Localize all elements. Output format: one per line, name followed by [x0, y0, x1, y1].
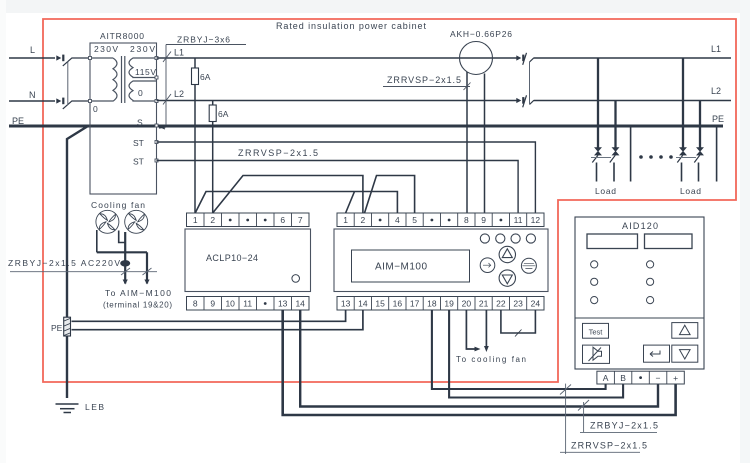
CT AKH-0.66P26 circle: [460, 42, 493, 75]
controller U2 aux button: [521, 258, 536, 273]
svg-text:AITR8000: AITR8000: [100, 31, 144, 41]
breaker QF2 pole L1: [516, 53, 534, 65]
button Enter: [644, 345, 670, 362]
wire jumper AIM 22-24: [501, 310, 536, 333]
button Down: [672, 345, 698, 362]
load group 1 linkage: [591, 157, 611, 159]
svg-text:23: 23: [513, 299, 523, 309]
svg-text:S: S: [137, 118, 143, 128]
svg-text:6A: 6A: [200, 72, 211, 82]
relay U1 ACLP10-24 main box: [185, 229, 311, 292]
svg-text:9: 9: [210, 299, 215, 309]
svg-text:B: B: [620, 373, 626, 383]
svg-text:0: 0: [138, 88, 143, 98]
svg-text:ZRBYJ−2x1.5: ZRBYJ−2x1.5: [590, 421, 658, 431]
svg-text:17: 17: [410, 299, 420, 309]
transformer T1 secondary coil lower (115V-0): [129, 81, 157, 101]
svg-text:+: +: [673, 373, 678, 383]
wire PE bus (thick horizontal): [9, 125, 723, 128]
wire tap into AIM-1: [346, 192, 355, 214]
svg-text:1: 1: [343, 215, 348, 225]
ellipsis dots between load groups: [639, 155, 673, 159]
ground LEB symbol: [56, 404, 79, 413]
svg-text:24: 24: [531, 299, 541, 309]
fuse FU2 body: [209, 105, 216, 122]
svg-text:9: 9: [481, 215, 486, 225]
fuse FU2 6A wire: [212, 101, 214, 214]
breaker QF1 pole N: [56, 98, 90, 109]
svg-text:14: 14: [358, 299, 368, 309]
wire L2 output: [157, 100, 519, 102]
svg-text:ZRRVSP−2x1.5: ZRRVSP−2x1.5: [238, 148, 318, 158]
svg-text:11: 11: [514, 215, 523, 225]
svg-text:Load: Load: [595, 186, 616, 196]
svg-text:LEB: LEB: [85, 402, 104, 412]
cable leader bottom (signal): [565, 384, 567, 454]
svg-text:AKH−0.66P26: AKH−0.66P26: [450, 29, 512, 39]
fan M1: [96, 210, 119, 233]
wire ACLP-14 to bus minus: [300, 310, 658, 407]
load group 1 PE drop: [630, 126, 632, 182]
load group 1 drop from L1 with contact: [592, 58, 601, 182]
svg-text:22: 22: [496, 299, 506, 309]
svg-text:8: 8: [464, 215, 469, 225]
svg-text:16: 16: [393, 299, 403, 309]
display panel terminal strip A B . - +: [597, 371, 684, 384]
svg-text:ST: ST: [133, 157, 144, 167]
svg-text:ZRBYJ−3x6: ZRBYJ−3x6: [177, 35, 230, 45]
left edge tint: [0, 0, 6, 463]
wire L1 output (transformer to right edge): [157, 57, 519, 59]
relay U1 top terminal strip 1 2 . . . 6 7: [187, 213, 310, 227]
svg-text:A: A: [603, 373, 609, 383]
svg-text:20: 20: [462, 299, 472, 309]
svg-text:18: 18: [427, 299, 437, 309]
svg-text:L1: L1: [711, 44, 721, 54]
svg-text:6A: 6A: [218, 109, 229, 119]
svg-text:12: 12: [531, 215, 541, 225]
svg-text:AIM−M100: AIM−M100: [375, 262, 427, 273]
breaker QF1 linkage: [67, 62, 69, 106]
relay U1 bottom terminal strip 8 9 10 11 . 13 14: [187, 297, 310, 311]
svg-text:4: 4: [395, 215, 400, 225]
right edge tint: [740, 0, 750, 463]
load group 2 linkage: [676, 157, 696, 159]
svg-text:230V: 230V: [94, 44, 118, 54]
transformer T1 core: [121, 56, 123, 103]
load group 1 drop from L2 with contact: [610, 101, 619, 182]
wire AIM-19 to bus B: [449, 310, 623, 398]
svg-text:Rated insulation power cabinet: Rated insulation power cabinet: [276, 21, 426, 31]
breaker QF1 pole L: [56, 55, 90, 66]
wire AIM-2 to AIM-5 rail: [365, 176, 415, 214]
display panel divider: [575, 317, 704, 319]
svg-text:N: N: [29, 90, 36, 100]
svg-text:19: 19: [444, 299, 454, 309]
relay U1 indicator circle: [292, 275, 300, 283]
wire ST2 to AIM terminal 11: [157, 161, 519, 214]
button Test: [583, 323, 609, 338]
load group 2 drop from L1 with contact: [677, 58, 686, 182]
fan feed arrows to AIM: [123, 280, 128, 285]
svg-text:0: 0: [93, 104, 98, 114]
breaker QF2 pole L2: [516, 95, 534, 107]
svg-text:ACLP10−24: ACLP10−24: [206, 253, 258, 263]
svg-text:Load: Load: [680, 186, 701, 196]
wire ACLP-2 to AIM-2 rail: [213, 176, 363, 214]
svg-text:L2: L2: [711, 86, 721, 96]
svg-text:PE: PE: [12, 116, 24, 126]
svg-text:115V: 115V: [135, 67, 156, 77]
fan AC node (filled): [120, 260, 130, 266]
display panel AID120 box: [575, 217, 704, 369]
transformer T1 secondary coil upper (230V-115V): [129, 58, 157, 78]
cabinet outline (red, L-shaped): [43, 19, 736, 382]
CT secondary wire to AIM terminal 9: [484, 74, 486, 214]
svg-text:13: 13: [341, 299, 351, 309]
display panel LEDs: [591, 261, 654, 304]
button Up: [672, 323, 698, 339]
controller U2 AIM-M100 main box: [334, 229, 548, 292]
svg-text:ZRRVSP−2x1.5: ZRRVSP−2x1.5: [571, 441, 647, 451]
svg-text:PE: PE: [712, 114, 724, 124]
wire PE drop diagonal from PE bus: [67, 126, 88, 398]
svg-text:5: 5: [412, 215, 417, 225]
controller U2 set button: [480, 258, 495, 273]
svg-text:230V: 230V: [130, 44, 155, 54]
fuse FU1 6A wire: [194, 58, 196, 213]
transformer T1 terminal squares: [89, 57, 159, 163]
fan M2: [125, 210, 148, 233]
wire ACLP-13 to bus plus: [283, 310, 676, 415]
svg-text:21: 21: [479, 299, 489, 309]
wire AIM-13 to PE block: [72, 310, 346, 321]
load group 2 drop from L2 with contact: [694, 101, 703, 182]
svg-text:PE: PE: [51, 323, 63, 333]
wire AIM-20 stub to cooling fan: [466, 310, 476, 349]
svg-text:(terminal 19&20): (terminal 19&20): [103, 301, 172, 310]
display panel screen 2: [645, 234, 693, 249]
top edge tint: [0, 0, 750, 13]
transformer T1 AITR8000 box: [90, 43, 157, 194]
svg-text:14: 14: [295, 299, 305, 309]
load group 2 PE drop: [716, 126, 718, 182]
svg-text:7: 7: [298, 215, 303, 225]
svg-text:2: 2: [210, 215, 215, 225]
fan wiring: [97, 230, 147, 284]
controller U2 bottom terminal strip 13-24: [337, 297, 544, 311]
controller U2 display window: [352, 250, 470, 282]
svg-text:−: −: [656, 373, 661, 383]
svg-text:AID120: AID120: [622, 221, 658, 231]
svg-text:10: 10: [225, 299, 235, 309]
svg-text:2: 2: [361, 215, 366, 225]
transformer T1 primary coil: [90, 58, 117, 101]
svg-text:L: L: [30, 45, 35, 55]
wire AIM-21 stub to cooling fan: [485, 310, 487, 348]
PE junction block: [64, 317, 71, 336]
fuse FU1 body: [192, 68, 199, 85]
cable leader bottom (power): [583, 402, 585, 432]
svg-text:L2: L2: [174, 89, 184, 99]
wire S to PE tick: [158, 126, 165, 130]
svg-text:8: 8: [193, 299, 198, 309]
svg-text:ZRBYJ−2x1.5 AC220V: ZRBYJ−2x1.5 AC220V: [8, 258, 120, 268]
wire L input: [9, 57, 55, 59]
svg-text:13: 13: [278, 299, 288, 309]
display panel screen 1: [587, 234, 638, 249]
svg-text:ZRRVSP−2x1.5: ZRRVSP−2x1.5: [387, 75, 461, 85]
controller U2 top terminal strip 1 2 . 4 5 . . 8 9 . 11 12: [337, 213, 544, 227]
svg-text:1: 1: [193, 215, 198, 225]
wire AIM-18 to bus A: [432, 310, 606, 389]
svg-text:15: 15: [375, 299, 385, 309]
CT secondary wire to AIM terminal 8: [466, 72, 468, 213]
svg-text:Cooling fan: Cooling fan: [91, 200, 145, 210]
wire ST1 to AIM terminal 12: [157, 142, 536, 213]
svg-text:11: 11: [243, 299, 252, 309]
svg-text:6: 6: [280, 215, 285, 225]
wire ACLP-1 to AIM-4 rail: [195, 192, 397, 214]
svg-text:Test: Test: [589, 328, 604, 337]
wire N input: [9, 100, 55, 102]
svg-text:L1: L1: [174, 48, 184, 58]
controller U2 down button: [499, 270, 515, 286]
controller U2 up button: [499, 246, 515, 262]
wire AIM-14 to PE block: [72, 310, 363, 330]
svg-text:ST: ST: [133, 138, 144, 148]
button Mute: [583, 345, 610, 363]
controller U2 LED row: [480, 234, 535, 243]
breaker QF2 linkage: [529, 62, 531, 105]
